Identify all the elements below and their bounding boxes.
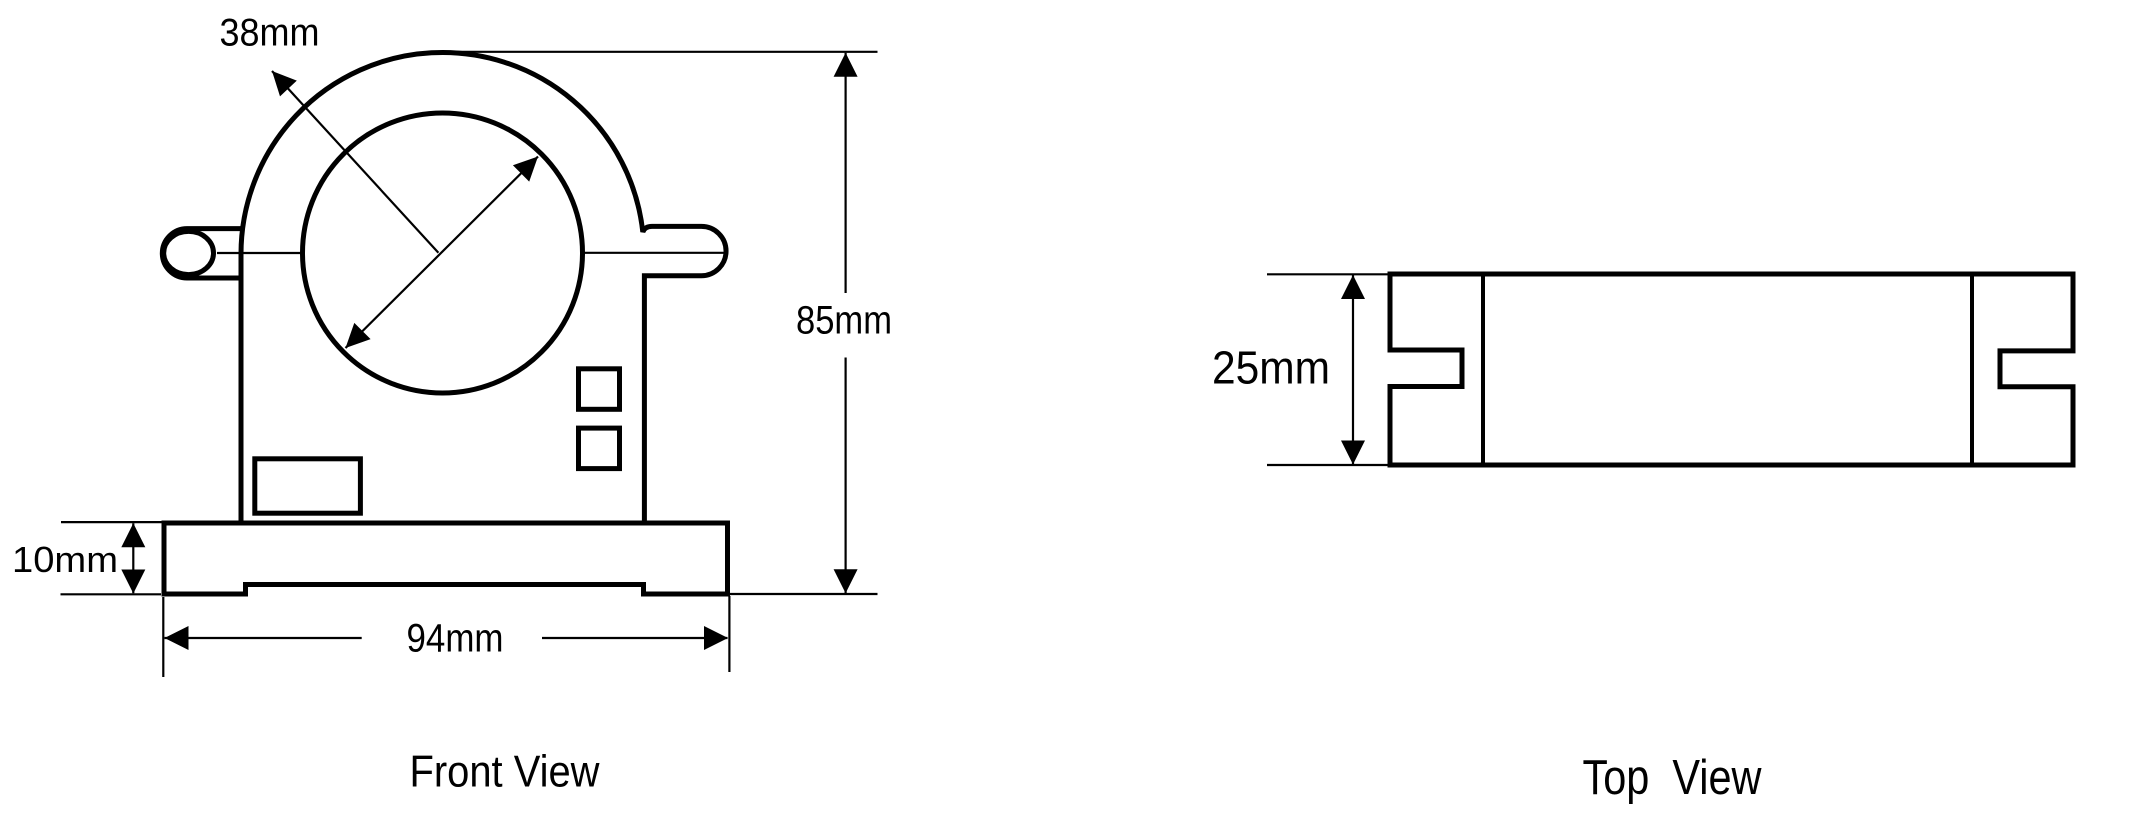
svg-text:94mm: 94mm xyxy=(407,617,504,661)
85mm top extension line xyxy=(455,51,878,53)
terminal square lower xyxy=(579,428,620,469)
diameter arrowhead lower-left xyxy=(346,323,371,348)
center line left segment xyxy=(217,252,301,254)
10mm dimension line xyxy=(132,523,134,593)
terminal square upper xyxy=(579,369,620,410)
front view main outline (dome + body sides + right tab) xyxy=(241,52,726,523)
38mm leader line xyxy=(272,71,438,253)
svg-text:Top View: Top View xyxy=(1583,751,1763,805)
94mm dimension line xyxy=(165,637,728,639)
10mm bottom arrowhead xyxy=(121,570,145,594)
94mm left arrowhead xyxy=(165,626,189,650)
svg-text:85mm: 85mm xyxy=(796,299,892,343)
85mm top arrowhead xyxy=(834,53,858,77)
left pin ellipse xyxy=(164,231,214,274)
svg-text:25mm: 25mm xyxy=(1212,342,1330,394)
bottom-left block xyxy=(255,459,361,513)
svg-text:38mm: 38mm xyxy=(220,11,320,54)
25mm bottom extension line xyxy=(1267,464,1390,466)
94mm right arrowhead xyxy=(704,626,728,650)
center line right segment xyxy=(585,252,725,254)
left tab stadium xyxy=(162,229,241,278)
diameter arrowhead upper-right xyxy=(513,157,538,182)
svg-text:10mm: 10mm xyxy=(12,539,118,580)
hole diameter line xyxy=(346,157,539,349)
25mm top arrowhead xyxy=(1341,275,1365,299)
top view outline with side slots xyxy=(1390,274,2073,465)
10mm bottom extension line xyxy=(61,593,162,595)
top view right inner parting line xyxy=(1970,274,1974,465)
top view left inner parting line xyxy=(1481,274,1485,465)
85mm bottom arrowhead xyxy=(834,569,858,593)
25mm bottom arrowhead xyxy=(1341,441,1365,465)
85mm dimension line xyxy=(844,53,846,593)
base plate xyxy=(164,523,728,594)
10mm top arrowhead xyxy=(121,523,145,547)
10mm top extension line xyxy=(61,521,162,523)
38mm leader arrowhead xyxy=(272,71,297,96)
94mm left extension line xyxy=(162,597,164,677)
85mm bottom extension line xyxy=(729,593,878,595)
25mm top extension line xyxy=(1267,273,1390,275)
svg-text:Front View: Front View xyxy=(410,748,601,797)
inner circle (38mm hole) xyxy=(303,113,583,393)
94mm right extension line xyxy=(728,596,730,672)
25mm dimension line xyxy=(1352,275,1354,465)
